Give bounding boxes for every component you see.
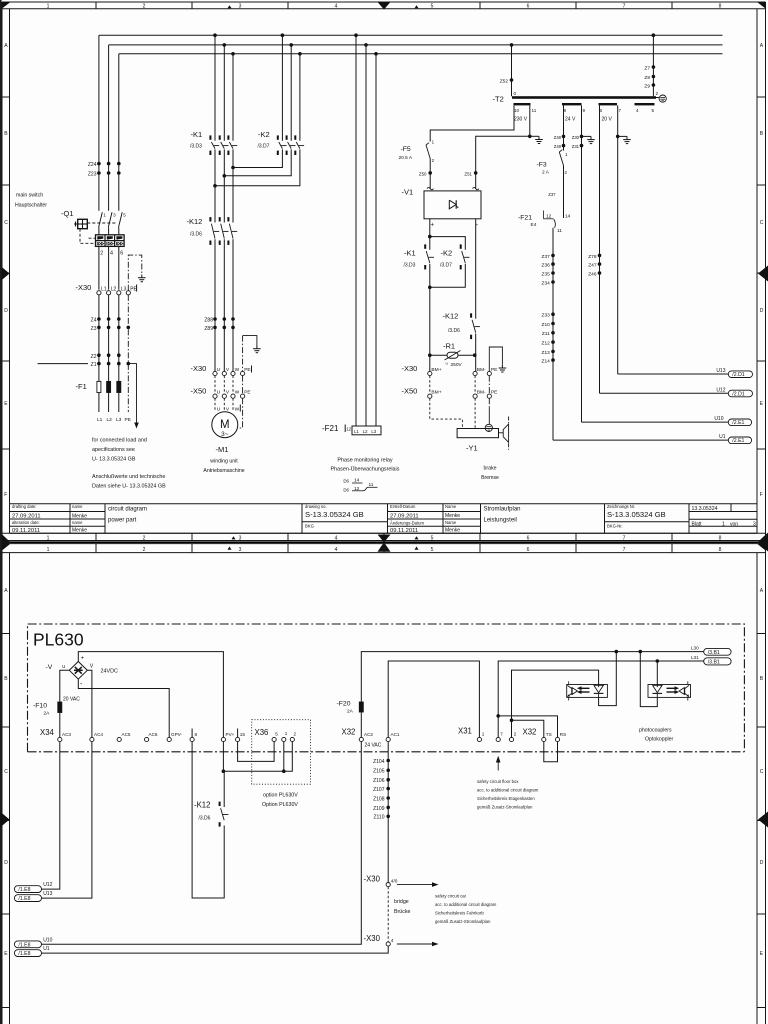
svg-text:230 V: 230 V (514, 117, 528, 123)
svg-text:/2.D1: /2.D1 (732, 391, 745, 397)
wire F3 to F21 contact (563, 166, 565, 211)
svg-text:D: D (760, 308, 764, 314)
terminal X34:15 (237, 729, 239, 738)
svg-text:2: 2 (143, 536, 146, 542)
fuse F1 pole 2 (107, 381, 111, 392)
node Z14 (551, 358, 555, 362)
svg-text:1: 1 (103, 213, 106, 218)
svg-text:Phase monitoring relay: Phase monitoring relay (337, 458, 392, 464)
wire T2:7 down (617, 105, 619, 374)
title block date cells (388, 518, 444, 520)
svg-text:BM-: BM- (477, 367, 486, 373)
wire U21 to L31 rail node (656, 659, 660, 663)
wire F5 to V1 (429, 159, 431, 189)
svg-text:Z105: Z105 (373, 769, 385, 775)
svg-text:BM-: BM- (477, 389, 486, 395)
svg-text:-K1: -K1 (404, 249, 416, 258)
svg-text:AC6: AC6 (149, 732, 158, 737)
page 1 outer border (2, 1, 766, 3)
svg-text:1: 1 (722, 521, 725, 527)
motor M1 (212, 412, 238, 438)
svg-text:Z24: Z24 (88, 162, 97, 168)
svg-text:PE: PE (125, 417, 131, 423)
wire X32:7 to L31 rail (498, 661, 704, 737)
svg-text:Z47: Z47 (588, 263, 597, 269)
svg-text:-F10: -F10 (33, 703, 47, 710)
wire bus drop to K2 pole 3 (299, 54, 301, 141)
svg-text:U- 13.3.05324 GB: U- 13.3.05324 GB (92, 457, 136, 463)
svg-text:-K2: -K2 (258, 130, 270, 139)
wire bus drop to F21 L1 (355, 35, 357, 426)
brake Y1 coil (457, 429, 498, 438)
wire V~ to X34 AC4 (87, 670, 92, 737)
svg-text:Z7: Z7 (644, 65, 650, 71)
terminal X34:AC5 (117, 737, 121, 741)
wire F21 to Z column (552, 228, 554, 440)
terminal X31:1 (477, 737, 481, 741)
transformer T2 primary bar (512, 96, 656, 99)
node Z51 (474, 171, 478, 175)
fuse F20 (359, 702, 363, 712)
svg-text:acc. to additional circuit dia: acc. to additional circuit diagram (477, 788, 539, 793)
wire bus to Q1 phase 1 (98, 35, 100, 211)
brake pad symbol (499, 432, 504, 434)
page 2 outer border (2, 543, 766, 545)
svg-text:BKG-Nr.: BKG-Nr. (607, 524, 623, 529)
node Z8 (652, 75, 656, 79)
terminal X34:AC3 (58, 737, 62, 741)
ground symbol at Q1 PE (141, 275, 143, 278)
wire bus drop to K1 pole 2 (223, 45, 225, 141)
flag U12 page2 (14, 886, 41, 893)
svg-text:S-13.3.05324 GB: S-13.3.05324 GB (305, 510, 364, 519)
wire 230V neutral to V1 (476, 136, 530, 189)
wire V+ rail to PV+ (78, 652, 223, 738)
terminal X30:4/0 (386, 883, 390, 887)
svg-text:-F21: -F21 (518, 215, 532, 222)
fold mark right page-junction (758, 533, 768, 552)
wire K1 to K12 pole 3 (232, 149, 234, 222)
terminal X50:PE2 (487, 394, 491, 398)
terminal X32:TS (542, 737, 546, 741)
wire X32:2 to TS (512, 720, 544, 737)
wire bridge X30 (387, 887, 389, 942)
terminal X50:PE (241, 394, 245, 398)
photocoupler U21 led (653, 685, 663, 692)
page 2 left row ruler (9, 553, 11, 1024)
svg-text:-K12: -K12 (187, 217, 203, 226)
contactor K2 pole 1 (277, 135, 279, 139)
node Z50 (428, 171, 432, 175)
corner mark page 2 top-right (757, 544, 766, 551)
corner mark page 2 top-left (2, 544, 11, 551)
svg-text:7: 7 (619, 108, 622, 113)
svg-text:Optokoppler: Optokoppler (645, 737, 674, 743)
relay contact F21 (543, 211, 545, 219)
svg-text:3: 3 (113, 213, 116, 218)
wire V- to GPV- (78, 679, 169, 737)
svg-text:20 V: 20 V (602, 117, 613, 123)
wire K12 to R1 (475, 334, 477, 372)
svg-text:-X30: -X30 (76, 283, 92, 292)
wire X32 AC1 to X30 4/0 (387, 742, 389, 883)
svg-text:power part: power part (108, 518, 137, 524)
svg-text:Z1: Z1 (91, 362, 97, 368)
contactor K12 pole 1 (209, 217, 211, 221)
svg-text:1: 1 (285, 731, 288, 736)
node Z110 (386, 815, 390, 819)
svg-text:-X50: -X50 (402, 387, 418, 396)
svg-text:8: 8 (195, 732, 198, 737)
svg-text:20.5 A: 20.5 A (399, 155, 413, 161)
wire K12 to X30 motor 3 (232, 239, 234, 371)
node Z107 (386, 787, 390, 791)
photocoupler U20 phototransistor (568, 681, 570, 684)
svg-text:Leistungsteil: Leistungsteil (484, 518, 517, 524)
svg-text:1: 1 (482, 731, 485, 736)
svg-text:Menke: Menke (72, 528, 87, 534)
svg-text:Änderungs-Datum: Änderungs-Datum (390, 521, 424, 526)
wire bus drop to F21 L2 (365, 45, 367, 426)
wire X32 AC1 up to X31 (388, 661, 479, 737)
svg-text:-K1: -K1 (191, 130, 203, 139)
svg-text:Z78: Z78 (588, 254, 597, 260)
wire X30 to F1 phase 3 (118, 295, 120, 382)
svg-text:4/0: 4/0 (391, 879, 398, 885)
svg-text:24 V: 24 V (565, 117, 576, 123)
wire TS-RS jumper (544, 742, 558, 762)
svg-text:8: 8 (719, 4, 722, 10)
svg-text:3: 3 (239, 536, 242, 542)
svg-text:Z33: Z33 (542, 313, 551, 319)
svg-text:4: 4 (391, 938, 394, 944)
transformer T2 protective earth (656, 97, 659, 99)
svg-text:-X30: -X30 (364, 934, 381, 943)
svg-text:D6: D6 (343, 488, 349, 493)
svg-text:X34: X34 (40, 728, 55, 737)
svg-text:X36: X36 (255, 728, 269, 737)
node Z12 (551, 340, 555, 344)
svg-text:Z36: Z36 (542, 263, 551, 269)
svg-text:4: 4 (335, 4, 338, 10)
svg-text:24VDC: 24VDC (101, 669, 118, 675)
svg-text:Z14: Z14 (542, 359, 551, 365)
flag U1 /2.E1 (728, 437, 751, 444)
terminal X50:V (222, 394, 226, 398)
svg-text:U12: U12 (716, 387, 725, 393)
corner mark top-left (2, 2, 11, 9)
svg-text:5: 5 (123, 213, 126, 218)
svg-text:27.09.2011: 27.09.2011 (12, 514, 41, 520)
svg-text:AC4: AC4 (94, 732, 103, 737)
node Z13 (551, 350, 555, 354)
node Z9 (652, 83, 656, 87)
svg-text:Name: Name (445, 520, 457, 525)
wire to flag U1 (553, 439, 728, 441)
terminal X34:PV+ (221, 737, 225, 741)
node Z105 (386, 769, 390, 773)
svg-text:L3: L3 (371, 429, 376, 434)
node Z11 (551, 331, 555, 335)
svg-text:U13: U13 (716, 368, 725, 374)
svg-text:Z37: Z37 (548, 192, 556, 197)
wire X50 BM- to Y1 (474, 398, 476, 428)
flag U10 page2 (14, 941, 41, 948)
title block drawing-no cell (302, 521, 388, 523)
transformer T2 winding 20V (599, 103, 618, 105)
terminal X30:4 (386, 942, 390, 946)
wire bus drop to K2 pole 1 (281, 35, 283, 141)
fold mark right-middle page 1 (758, 266, 768, 282)
svg-text:Brücke: Brücke (394, 909, 411, 915)
svg-text:C: C (760, 769, 764, 775)
svg-text:Z109: Z109 (373, 806, 385, 812)
svg-text:D6: D6 (343, 478, 349, 483)
wire L30 rail (361, 652, 703, 702)
svg-text:main switch: main switch (16, 193, 43, 199)
wire bus drop to K1 pole 3 (232, 54, 234, 141)
svg-text:M: M (220, 419, 230, 431)
svg-text:PE: PE (244, 389, 250, 395)
wire T2:11 junction (529, 105, 531, 136)
svg-text:20 VAC: 20 VAC (63, 697, 80, 703)
contactor K1 pole 1 (209, 135, 211, 139)
wire X30 to F1 phase 1 (98, 295, 100, 382)
svg-text:Z34: Z34 (542, 280, 551, 286)
terminal X30:L3 (117, 291, 121, 295)
page edge strip (0, 0, 2, 1024)
flag U13 page2 (14, 895, 41, 902)
svg-text:L2: L2 (111, 287, 117, 293)
svg-text:-F3: -F3 (537, 162, 547, 169)
svg-text:3~: 3~ (221, 431, 229, 438)
wire motor PE down (238, 398, 243, 428)
svg-text:7: 7 (623, 536, 626, 542)
fold mark top-center (378, 2, 391, 10)
wire bus L1 (99, 34, 723, 36)
svg-text:Sicherheitskreis Etagenkasten: Sicherheitskreis Etagenkasten (477, 796, 535, 801)
svg-text:/3.B1: /3.B1 (708, 660, 720, 666)
svg-text:4: 4 (110, 251, 113, 257)
svg-text:Z104: Z104 (373, 759, 385, 765)
svg-text:GPV-: GPV- (171, 732, 182, 737)
wire overload to X30 (98, 246, 100, 289)
svg-text:4: 4 (335, 547, 338, 553)
svg-text:E4: E4 (531, 222, 537, 228)
svg-text:TS: TS (546, 732, 552, 737)
svg-text:Z30: Z30 (572, 135, 580, 140)
corner mark top-right (757, 2, 766, 9)
wire bus to Q1 phase 2 (108, 45, 110, 211)
svg-text:W: W (235, 389, 240, 395)
page 2 right row ruler (756, 553, 758, 1024)
wire PE brake up to ground (489, 347, 502, 371)
wire to flag U12 (600, 392, 729, 394)
svg-text:-F21: -F21 (322, 424, 339, 433)
svg-text:1: 1 (47, 536, 50, 542)
svg-text:-K12: -K12 (194, 801, 210, 810)
svg-text:L2: L2 (107, 417, 113, 423)
node Z3 (97, 326, 101, 330)
svg-text:/1.E8: /1.E8 (18, 951, 30, 957)
page separation line (0, 541, 768, 543)
wire X30 PE down (127, 295, 129, 412)
svg-text:AC1: AC1 (391, 732, 400, 737)
wire R1 to X30 BM+ (429, 355, 431, 371)
terminal X50:BM- (473, 394, 477, 398)
svg-text:Option PL630V: Option PL630V (262, 802, 298, 808)
svg-text:C: C (760, 220, 764, 226)
svg-text:2: 2 (656, 91, 659, 96)
svg-text:photocouplers: photocouplers (639, 728, 672, 734)
svg-text:2 A: 2 A (542, 170, 550, 176)
transformer T2 winding 24V (562, 103, 582, 105)
svg-text:BKG: BKG (305, 524, 314, 529)
terminal X50:W (231, 394, 235, 398)
svg-text:/1.E8: /1.E8 (18, 896, 30, 902)
wire U12 to X34 AC3 (42, 742, 60, 890)
ground tap 24V (582, 135, 592, 137)
svg-text:PE: PE (244, 367, 250, 373)
node Z78 (598, 254, 602, 258)
svg-text:S-13.3.05324 GB: S-13.3.05324 GB (607, 510, 666, 519)
title block row lines left (10, 518, 105, 520)
svg-text:Menke: Menke (445, 513, 460, 519)
wire T2:6 down (599, 105, 601, 393)
svg-text:15: 15 (240, 732, 246, 737)
svg-text:6: 6 (527, 547, 530, 553)
node Z49 (562, 144, 566, 148)
rectifier V1 diode (449, 200, 456, 209)
ground tap 230V (530, 135, 539, 137)
svg-text:-X30: -X30 (402, 364, 418, 373)
svg-text:6: 6 (527, 536, 530, 542)
rectifier V1 box (424, 191, 481, 219)
svg-text:U: U (217, 389, 221, 395)
fold mark right-middle page 2 (758, 812, 768, 828)
svg-text:L2: L2 (363, 429, 368, 434)
svg-text:7: 7 (623, 4, 626, 10)
svg-text:acc. to additional circuit dia: acc. to additional circuit diagram (435, 902, 497, 907)
svg-text:Z88: Z88 (204, 318, 213, 324)
node Z46 (598, 271, 602, 275)
node Z48 (562, 135, 566, 139)
relay F21 box (352, 426, 381, 435)
svg-text:for connected load and: for connected load and (92, 438, 147, 444)
svg-text:L31: L31 (691, 655, 699, 660)
svg-text:2: 2 (100, 251, 103, 257)
svg-text:14: 14 (354, 477, 360, 483)
svg-text:Z106: Z106 (373, 778, 385, 784)
wire X50 to motor (214, 398, 216, 412)
svg-text:4: 4 (636, 108, 639, 113)
wire PV+ down to K12 (222, 742, 224, 772)
svg-text:/3.B1: /3.B1 (708, 650, 720, 656)
photocoupler U21 light arrows (667, 687, 675, 689)
brake Y1 earth terminal (485, 424, 492, 431)
terminal X34:AC6 (145, 737, 149, 741)
page 1 left row ruler (9, 9, 11, 534)
resistor R1 (430, 354, 447, 356)
terminal X36:1 (282, 737, 286, 741)
svg-text:D: D (4, 308, 8, 314)
wire K12 up to PV+ node (223, 771, 225, 807)
node Z52 (510, 78, 514, 82)
bottom ruler ticks (232, 536, 236, 539)
svg-text:Bremse: Bremse (481, 475, 499, 481)
svg-text:Z37: Z37 (542, 254, 551, 260)
svg-text:-F5: -F5 (401, 146, 411, 153)
rectifier V diode symbol (75, 667, 82, 674)
arrow to connected load (128, 364, 136, 423)
svg-text:name: name (72, 520, 83, 525)
svg-text:-V1: -V1 (402, 188, 414, 197)
node Z108 (386, 796, 390, 800)
svg-text:Z110: Z110 (373, 815, 384, 821)
terminal X30:PE (126, 291, 130, 295)
svg-text:5: 5 (431, 536, 434, 542)
svg-text:3: 3 (239, 4, 242, 10)
svg-text:X32: X32 (523, 728, 537, 737)
svg-text:Erstell-Datum: Erstell-Datum (390, 504, 416, 509)
svg-text:Z89: Z89 (204, 326, 213, 332)
transformer T2 winding 230V (514, 103, 531, 105)
svg-text:L3: L3 (116, 417, 122, 423)
flag U12 /2.D1 (728, 390, 752, 397)
node Z23 (97, 171, 101, 175)
svg-text:BM+: BM+ (431, 367, 441, 373)
page 1 top column ruler (2, 8, 766, 10)
svg-text:Z4: Z4 (91, 318, 97, 324)
node Z34 (551, 280, 555, 284)
wire K12 to X30 motor 1 (214, 239, 216, 371)
svg-text:U13: U13 (43, 891, 52, 897)
terminal X34:GPV- (167, 737, 171, 741)
node Z88 (213, 317, 217, 321)
wire X50 BM+ to Y1 (430, 398, 463, 428)
node Z2 (97, 353, 101, 357)
contactor K2 pole 3 (294, 135, 296, 139)
page 2 top column ruler (2, 552, 766, 554)
svg-text:7: 7 (623, 547, 626, 553)
svg-text:Anschlußwerte und technische: Anschlußwerte und technische (92, 474, 165, 480)
svg-text:AC3: AC3 (62, 732, 71, 737)
rectifier V diamond (69, 662, 87, 680)
contactor K1 pole 2 (219, 135, 221, 139)
node Z104 (386, 759, 390, 763)
wire bus L3 (119, 53, 723, 55)
svg-text:27.09.2011: 27.09.2011 (390, 514, 419, 520)
option connector X36 box (252, 720, 311, 785)
svg-text:0: 0 (514, 91, 517, 96)
svg-text:-X30: -X30 (191, 364, 207, 373)
wire X32:2 to photocoupler (512, 670, 599, 737)
svg-text:-R1: -R1 (443, 342, 455, 351)
contactor K2 pole 2 (286, 135, 288, 139)
wire V1- to K12 (475, 219, 477, 319)
wire U13 to X34 AC4 (42, 742, 92, 899)
contactor K1 pole 3 (227, 135, 229, 139)
title block Zeichnungs-Nr cell (605, 521, 690, 523)
terminal X32:7 (496, 737, 500, 741)
title block frame (10, 503, 757, 505)
flag U1 page2 (14, 950, 41, 957)
svg-text:2: 2 (143, 547, 146, 553)
svg-text:-X50: -X50 (191, 387, 207, 396)
wire bus to Q1 phase 3 (118, 54, 120, 211)
svg-text:Phasen-Überwachungsrelais: Phasen-Überwachungsrelais (331, 466, 400, 473)
svg-text:11: 11 (532, 108, 537, 113)
